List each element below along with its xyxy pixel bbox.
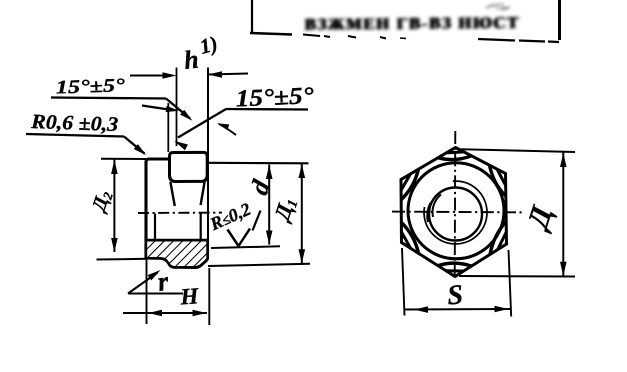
svg-text:15°±5°: 15°±5° (55, 75, 125, 98)
svg-text:-~:;,.: -~:;,. (485, 0, 510, 13)
svg-text:H: H (179, 283, 201, 309)
svg-text:R0,6 ±0,3: R0,6 ±0,3 (30, 111, 119, 136)
svg-text:15°±5°: 15°±5° (235, 83, 315, 112)
svg-text:S: S (446, 279, 464, 311)
svg-text:ВЗЖМЕН ГВ-ВЗ НЮСТ: ВЗЖМЕН ГВ-ВЗ НЮСТ (306, 13, 521, 34)
svg-text:h: h (183, 45, 200, 75)
